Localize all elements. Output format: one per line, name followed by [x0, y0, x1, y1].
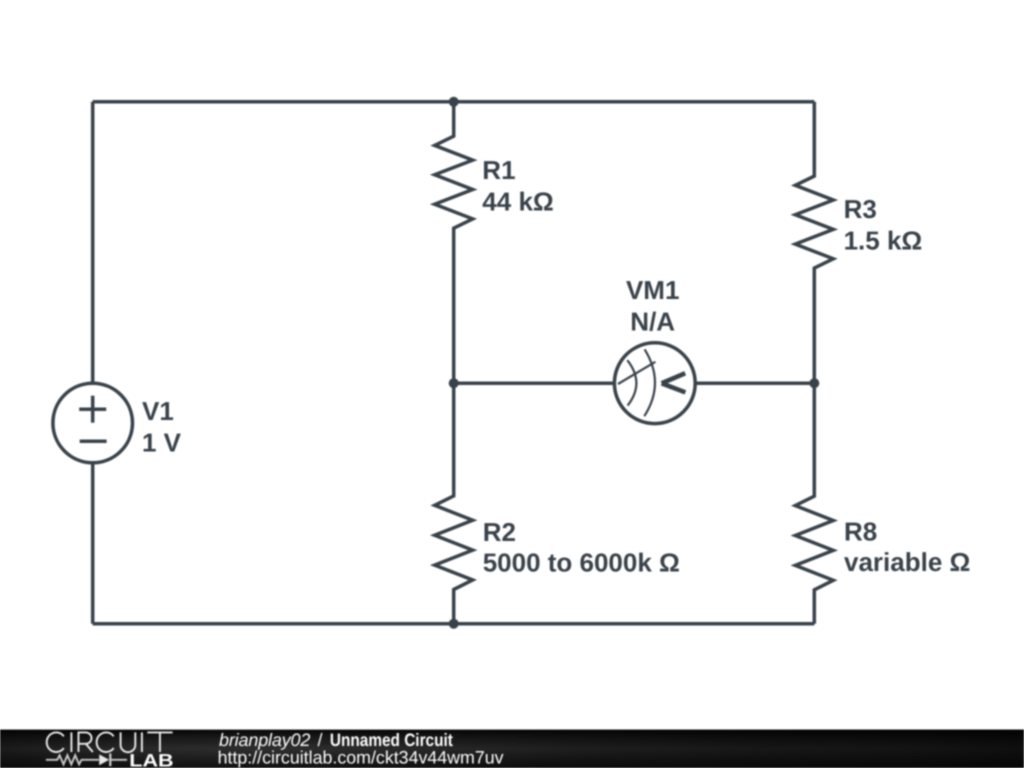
- svg-text:VM1: VM1: [626, 275, 679, 305]
- svg-text:1.5 kΩ: 1.5 kΩ: [844, 225, 923, 255]
- svg-text:R2: R2: [483, 517, 516, 547]
- svg-text:1 V: 1 V: [142, 427, 182, 457]
- svg-text:R1: R1: [482, 155, 515, 185]
- svg-text:V1: V1: [142, 396, 174, 426]
- svg-text:LAB: LAB: [129, 751, 173, 768]
- svg-text:variable Ω: variable Ω: [844, 547, 970, 577]
- svg-text:R8: R8: [844, 516, 877, 546]
- svg-text:http://circuitlab.com/ckt34v44: http://circuitlab.com/ckt34v44wm7uv: [218, 748, 504, 768]
- svg-text:44 kΩ: 44 kΩ: [482, 186, 553, 216]
- svg-text:5000 to 6000k Ω: 5000 to 6000k Ω: [483, 547, 680, 577]
- svg-text:R3: R3: [844, 194, 877, 224]
- svg-text:N/A: N/A: [630, 307, 675, 337]
